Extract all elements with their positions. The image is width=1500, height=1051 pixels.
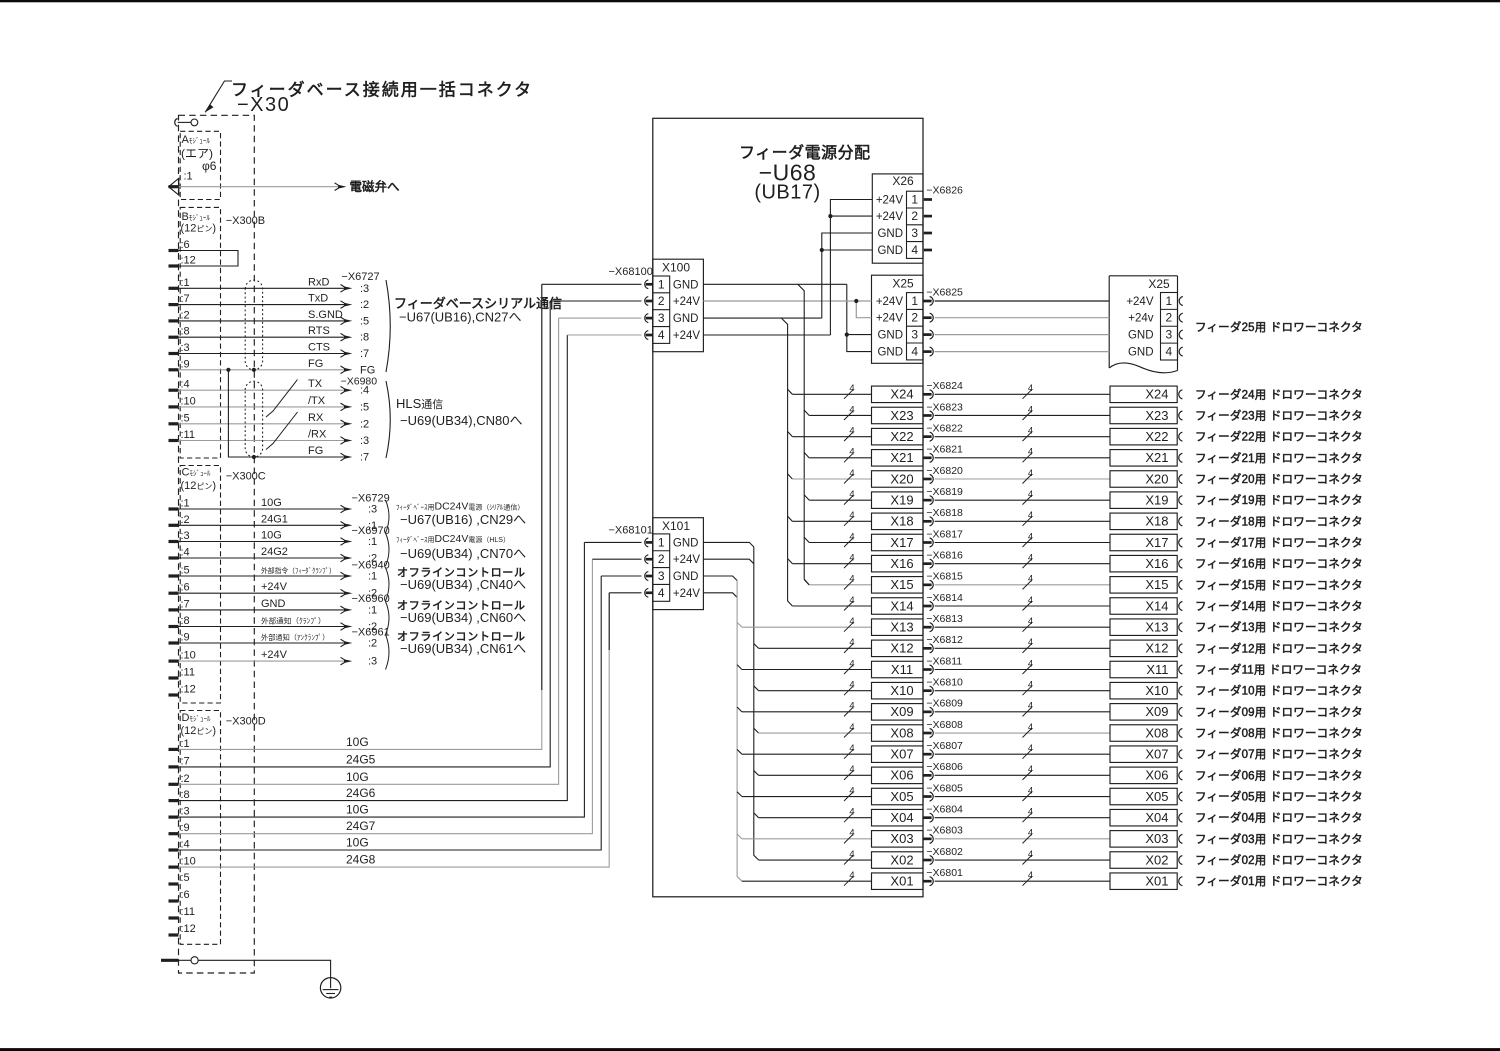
bus tap to X21 bbox=[804, 453, 809, 458]
svg-text:−X6817: −X6817 bbox=[926, 528, 963, 540]
shield capsule serial bbox=[245, 280, 262, 370]
connector X26 box bbox=[872, 174, 923, 263]
connector -X6802 plug bbox=[923, 859, 932, 862]
svg-text:10G: 10G bbox=[261, 530, 282, 542]
pin C:11 tick bbox=[169, 676, 179, 679]
svg-text:+24V: +24V bbox=[673, 296, 701, 308]
drawer connector X15 box bbox=[1110, 577, 1177, 594]
wire X16 to drawer connector bbox=[935, 563, 1110, 565]
svg-text:4: 4 bbox=[849, 764, 854, 775]
svg-text:X02: X02 bbox=[890, 852, 913, 867]
svg-text:1: 1 bbox=[1165, 294, 1172, 308]
connector -X6822 plug bbox=[923, 435, 932, 438]
bus tap to X03 bbox=[737, 834, 742, 839]
wire X100:3 GND to X26 pins 3-4 bbox=[703, 317, 821, 319]
svg-text::4: :4 bbox=[181, 379, 190, 391]
wire D:9 24G7 to distribution bbox=[179, 559, 593, 834]
connector X101 box bbox=[653, 518, 704, 610]
svg-text:2: 2 bbox=[658, 552, 665, 566]
power distribution unit U68 (UB17) box bbox=[653, 118, 923, 897]
junction dot X25 pin3 bbox=[845, 333, 849, 337]
drawer connector X13 box bbox=[1110, 619, 1177, 636]
svg-text:フィーダ08用 ドロワーコネクタ: フィーダ08用 ドロワーコネクタ bbox=[1195, 726, 1363, 740]
svg-text::3: :3 bbox=[181, 342, 190, 354]
svg-text:24G8: 24G8 bbox=[346, 853, 376, 867]
pin C:6 tick bbox=[169, 592, 179, 595]
wire X04 to drawer connector bbox=[935, 817, 1110, 819]
svg-text:4: 4 bbox=[1028, 383, 1033, 394]
bus tap to X08 bbox=[754, 728, 759, 733]
svg-text:X03: X03 bbox=[890, 831, 913, 846]
svg-text:X18: X18 bbox=[1145, 514, 1168, 529]
svg-text:3: 3 bbox=[911, 226, 918, 240]
wire D:2 10G to distribution bbox=[179, 318, 559, 784]
svg-text:+24V: +24V bbox=[673, 330, 701, 342]
svg-text:−X6819: −X6819 bbox=[926, 486, 963, 498]
svg-text::10: :10 bbox=[181, 856, 196, 868]
svg-text:CTS: CTS bbox=[308, 342, 330, 354]
svg-text::2: :2 bbox=[181, 773, 190, 785]
svg-text:+24v: +24v bbox=[1128, 313, 1154, 325]
wire X20 to drawer connector bbox=[935, 478, 1110, 480]
wire jumper B:6 to B:12 bbox=[179, 251, 239, 267]
svg-text:/RX: /RX bbox=[308, 429, 327, 441]
bus tap to X07 bbox=[737, 749, 742, 754]
svg-text:4: 4 bbox=[1028, 743, 1033, 754]
wire B:5 RX to X6980:2 bbox=[179, 423, 345, 425]
svg-text:GND: GND bbox=[877, 347, 903, 359]
pin B:4 tick bbox=[169, 389, 179, 392]
svg-text:1: 1 bbox=[911, 193, 918, 207]
pin D:9 tick bbox=[169, 832, 179, 835]
svg-text:4: 4 bbox=[1028, 849, 1033, 860]
bus tap to X10 bbox=[754, 686, 759, 691]
svg-text:4: 4 bbox=[1028, 531, 1033, 542]
wire C:3 10G bbox=[179, 541, 345, 543]
svg-text:−X6727: −X6727 bbox=[341, 271, 379, 283]
wire X6825:2 to drawer X25 bbox=[935, 317, 1110, 319]
svg-text:フィーダ01用 ドロワーコネクタ: フィーダ01用 ドロワーコネクタ bbox=[1195, 874, 1363, 888]
connector -X6817 plug bbox=[923, 541, 932, 544]
svg-text::7: :7 bbox=[181, 598, 190, 610]
pin D:10 tick bbox=[169, 865, 179, 868]
svg-text::1: :1 bbox=[368, 604, 377, 616]
shield capsule HLS bbox=[245, 381, 262, 457]
svg-text:RxD: RxD bbox=[308, 276, 329, 288]
svg-text:+24V: +24V bbox=[673, 588, 701, 600]
svg-text:4: 4 bbox=[849, 870, 854, 881]
junction dot X25 pin1 bbox=[854, 299, 858, 303]
feeder output X05 row bbox=[742, 796, 872, 798]
svg-text:24G5: 24G5 bbox=[346, 752, 376, 766]
bus tap to X16 bbox=[788, 559, 793, 564]
svg-text:X100: X100 bbox=[662, 261, 690, 275]
wire C:4 24G2 bbox=[179, 557, 345, 559]
svg-text:24G2: 24G2 bbox=[261, 546, 288, 558]
svg-text:電磁弁へ: 電磁弁へ bbox=[350, 179, 400, 194]
svg-text:−X6820: −X6820 bbox=[926, 465, 963, 477]
wire X01 to drawer connector bbox=[935, 880, 1110, 882]
svg-text:+24V: +24V bbox=[876, 296, 904, 308]
svg-text:4: 4 bbox=[1028, 616, 1033, 627]
drawer connector X08 box bbox=[1110, 725, 1177, 742]
connector X11 box on U68 bbox=[872, 661, 924, 678]
svg-text:フィーダ07用 ドロワーコネクタ: フィーダ07用 ドロワーコネクタ bbox=[1195, 747, 1363, 761]
svg-text:X25: X25 bbox=[1148, 277, 1170, 291]
connector X02 box on U68 bbox=[872, 852, 924, 869]
pin D:12 tick bbox=[169, 933, 179, 936]
svg-text::2: :2 bbox=[368, 638, 377, 650]
svg-text:X23: X23 bbox=[890, 408, 913, 423]
svg-text:+24V: +24V bbox=[876, 195, 904, 207]
wire D:10 vertical upper segment bbox=[608, 593, 610, 650]
svg-text::8: :8 bbox=[181, 326, 190, 338]
svg-text:フィーダ23用 ドロワーコネクタ: フィーダ23用 ドロワーコネクタ bbox=[1195, 408, 1363, 422]
wire X03 to drawer connector bbox=[935, 838, 1110, 840]
wire X6825:4 to drawer X25 bbox=[935, 351, 1110, 353]
svg-text:フィーダ21用 ドロワーコネクタ: フィーダ21用 ドロワーコネクタ bbox=[1195, 451, 1363, 465]
connector X13 box on U68 bbox=[872, 619, 924, 636]
wire X101:1-2 to bus vD bbox=[703, 542, 753, 547]
svg-text::12: :12 bbox=[181, 255, 196, 267]
svg-text:X14: X14 bbox=[890, 598, 913, 613]
connector -X6824 plug bbox=[923, 393, 932, 396]
svg-text:−X6813: −X6813 bbox=[926, 613, 963, 625]
svg-text::8: :8 bbox=[181, 789, 190, 801]
pin B:8 tick bbox=[169, 336, 179, 339]
svg-text:−U69(UB34) ,CN60へ: −U69(UB34) ,CN60へ bbox=[400, 610, 526, 625]
svg-text:X09: X09 bbox=[1145, 704, 1168, 719]
pin C:2 tick bbox=[169, 524, 179, 527]
svg-text::5: :5 bbox=[181, 412, 190, 424]
svg-text::7: :7 bbox=[181, 293, 190, 305]
svg-text:X24: X24 bbox=[1145, 387, 1168, 402]
bus vertical vC bbox=[737, 581, 742, 882]
wire X10 to drawer connector bbox=[935, 690, 1110, 692]
svg-text:X21: X21 bbox=[1145, 450, 1168, 465]
drawer connector X24 box bbox=[1110, 386, 1177, 403]
bus tap to X09 bbox=[737, 707, 742, 712]
svg-text::11: :11 bbox=[181, 667, 195, 679]
svg-text:−X6802: −X6802 bbox=[926, 846, 963, 858]
svg-text:X06: X06 bbox=[1145, 768, 1168, 783]
connector -X6815 plug bbox=[923, 583, 932, 586]
svg-text:−U67(UB16),CN27へ: −U67(UB16),CN27へ bbox=[399, 310, 521, 325]
svg-text:X12: X12 bbox=[1145, 641, 1168, 656]
pin C:9 tick bbox=[169, 641, 179, 644]
bottom border bar bbox=[0, 1048, 1500, 1051]
feeder output X03 row bbox=[742, 838, 872, 840]
svg-text:S.GND: S.GND bbox=[308, 309, 343, 321]
svg-text:4: 4 bbox=[1028, 468, 1033, 479]
connector X30 outer dashed outline bbox=[179, 115, 255, 973]
feeder output X17 row bbox=[809, 541, 871, 543]
svg-text:フィーダ14用 ドロワーコネクタ: フィーダ14用 ドロワーコネクタ bbox=[1195, 599, 1363, 613]
wire FG HLS from B:9 junction bbox=[228, 370, 344, 457]
svg-text:X05: X05 bbox=[890, 789, 913, 804]
junction dot X26 pin4 bbox=[820, 248, 824, 252]
wire B:4 TX to X6980:4 bbox=[179, 389, 345, 391]
svg-text::2: :2 bbox=[181, 514, 190, 526]
connector X22 box on U68 bbox=[872, 428, 924, 445]
connector -X6814 plug bbox=[923, 605, 932, 608]
svg-text:X15: X15 bbox=[1145, 577, 1168, 592]
wire C:2 24G1 bbox=[179, 524, 345, 526]
svg-text:X03: X03 bbox=[1145, 831, 1168, 846]
svg-text:4: 4 bbox=[849, 552, 854, 563]
drawer connector X22 box bbox=[1110, 428, 1177, 445]
pin C:3 tick bbox=[169, 540, 179, 543]
svg-text:X07: X07 bbox=[1145, 746, 1168, 761]
svg-text:フィーダ03用 ドロワーコネクタ: フィーダ03用 ドロワーコネクタ bbox=[1195, 832, 1363, 846]
connector X21 box on U68 bbox=[872, 450, 924, 467]
wire X24 to drawer connector bbox=[935, 393, 1110, 395]
connector -X6804 plug bbox=[923, 816, 932, 819]
bus vertical v2 from X100:3 bbox=[781, 318, 792, 606]
svg-text:24G7: 24G7 bbox=[346, 819, 376, 833]
connector -X6821 plug bbox=[923, 456, 932, 459]
svg-text:−U69(UB34),CN80へ: −U69(UB34),CN80へ bbox=[400, 413, 522, 428]
svg-text:フィーダ04用 ドロワーコネクタ: フィーダ04用 ドロワーコネクタ bbox=[1195, 811, 1363, 825]
connector -X6816 plug bbox=[923, 562, 932, 565]
brace HLS group bbox=[386, 381, 390, 458]
svg-text:フィーダ10用 ドロワーコネクタ: フィーダ10用 ドロワーコネクタ bbox=[1195, 684, 1363, 698]
svg-text:−X6822: −X6822 bbox=[926, 422, 963, 434]
svg-text:X22: X22 bbox=[890, 429, 913, 444]
brace X6970 bbox=[386, 533, 390, 566]
pin B:5 tick bbox=[169, 422, 179, 425]
wire D:8 24G6 to distribution bbox=[179, 335, 568, 801]
pin D:7 tick bbox=[169, 765, 179, 768]
svg-text:X11: X11 bbox=[891, 662, 913, 677]
svg-text:−X6961: −X6961 bbox=[352, 627, 390, 639]
leader line to X30 bbox=[205, 81, 232, 112]
junction dot FG shield HLS bbox=[252, 455, 256, 459]
svg-text:外部通知（ｸﾗﾝﾌﾟ）: 外部通知（ｸﾗﾝﾌﾟ） bbox=[261, 616, 326, 626]
coupler arc and circle at X30 top bbox=[175, 119, 178, 127]
svg-text:フィーダ12用 ドロワーコネクタ: フィーダ12用 ドロワーコネクタ bbox=[1195, 641, 1363, 655]
svg-text:4: 4 bbox=[1028, 552, 1033, 563]
svg-text:−X6803: −X6803 bbox=[926, 825, 963, 837]
feeder output X08 row bbox=[759, 732, 872, 734]
svg-text:4: 4 bbox=[849, 489, 854, 500]
svg-text:4: 4 bbox=[911, 243, 918, 257]
connector X20 box on U68 bbox=[872, 471, 924, 488]
wire X17 to drawer connector bbox=[935, 541, 1110, 543]
svg-text::8: :8 bbox=[181, 615, 190, 627]
svg-text:4: 4 bbox=[1028, 510, 1033, 521]
bus tap to X05 bbox=[737, 792, 742, 797]
svg-text:(12ピン): (12ピン) bbox=[181, 223, 217, 235]
svg-text:X06: X06 bbox=[890, 768, 913, 783]
svg-text:X11: X11 bbox=[1146, 662, 1168, 677]
svg-text::1: :1 bbox=[181, 738, 190, 750]
pin C:7 tick bbox=[169, 608, 179, 611]
svg-text:X08: X08 bbox=[1145, 725, 1168, 740]
wire X02 to drawer connector bbox=[935, 859, 1110, 861]
feeder output X18 row bbox=[792, 520, 871, 522]
junction dot X26 pin2 bbox=[828, 214, 832, 218]
pin B:3 tick bbox=[169, 352, 179, 355]
svg-text:/TX: /TX bbox=[308, 395, 326, 407]
svg-text:HLS通信: HLS通信 bbox=[396, 396, 443, 411]
connector X101 pin cells bbox=[653, 534, 670, 601]
connector -X6808 plug bbox=[923, 732, 932, 735]
pin D:11 tick bbox=[169, 916, 179, 919]
connector X18 box on U68 bbox=[872, 513, 924, 530]
svg-text:2: 2 bbox=[658, 294, 665, 308]
wire B:10 /TX to X6980:5 bbox=[179, 406, 345, 408]
connector -X6806 plug bbox=[923, 774, 932, 777]
svg-text:GND: GND bbox=[673, 571, 699, 583]
svg-text:−X6729: −X6729 bbox=[352, 493, 390, 505]
wire D:7 24G5 to distribution bbox=[179, 301, 551, 767]
wire X12 to drawer connector bbox=[935, 647, 1110, 649]
svg-text:−X30: −X30 bbox=[237, 94, 290, 116]
connector X10 box on U68 bbox=[872, 682, 924, 699]
wire X100:1 GND to X25 pins 3-4 bbox=[703, 283, 846, 285]
feeder output X02 row bbox=[759, 859, 872, 861]
svg-text:X05: X05 bbox=[1145, 789, 1168, 804]
svg-text:−X6823: −X6823 bbox=[926, 401, 963, 413]
svg-text:X22: X22 bbox=[1145, 429, 1168, 444]
svg-text:4: 4 bbox=[849, 701, 854, 712]
svg-text:X15: X15 bbox=[890, 577, 913, 592]
svg-text:24G1: 24G1 bbox=[261, 513, 288, 525]
svg-text:4: 4 bbox=[849, 658, 854, 669]
svg-text:フィーダ22用 ドロワーコネクタ: フィーダ22用 ドロワーコネクタ bbox=[1195, 430, 1363, 444]
drawer connector X11 box bbox=[1110, 661, 1177, 678]
svg-text:TX: TX bbox=[308, 378, 323, 390]
svg-text:RX: RX bbox=[308, 412, 324, 424]
svg-text:4: 4 bbox=[1028, 489, 1033, 500]
svg-text:4: 4 bbox=[849, 468, 854, 479]
drawer connector X21 box bbox=[1110, 450, 1177, 467]
connector X03 box on U68 bbox=[872, 831, 924, 848]
svg-text:フィーダ15用 ドロワーコネクタ: フィーダ15用 ドロワーコネクタ bbox=[1195, 578, 1363, 592]
drawer connector X20 box bbox=[1110, 471, 1177, 488]
svg-text:+24V: +24V bbox=[261, 581, 288, 593]
svg-text:X20: X20 bbox=[1145, 471, 1168, 486]
svg-text::6: :6 bbox=[181, 239, 190, 251]
svg-text:1: 1 bbox=[658, 535, 665, 549]
wire C:1 10G bbox=[179, 508, 345, 510]
svg-text:外部通知（ｱﾝｸﾗﾝﾌﾟ）: 外部通知（ｱﾝｸﾗﾝﾌﾟ） bbox=[261, 633, 329, 642]
connector X26 pin cells bbox=[907, 191, 924, 258]
svg-text:4: 4 bbox=[849, 679, 854, 690]
pin B:1 tick bbox=[169, 287, 179, 290]
pin C:12 tick bbox=[169, 693, 179, 696]
bus tap to X04 bbox=[754, 813, 759, 818]
svg-text:X09: X09 bbox=[890, 704, 913, 719]
connector X23 box on U68 bbox=[872, 407, 924, 424]
svg-text::3: :3 bbox=[181, 530, 190, 542]
wire X100:4 +24V to X26 pins 1-2 bbox=[703, 334, 830, 336]
svg-text:3: 3 bbox=[1165, 328, 1172, 342]
svg-text::6: :6 bbox=[181, 889, 190, 901]
bus tap to X22 bbox=[788, 432, 793, 437]
svg-text:X17: X17 bbox=[890, 535, 913, 550]
svg-text::8: :8 bbox=[360, 332, 369, 344]
svg-text:+24V: +24V bbox=[261, 649, 288, 661]
drawer connector X10 box bbox=[1110, 682, 1177, 699]
bus tap to X11 bbox=[737, 665, 742, 670]
drawer connector X09 box bbox=[1110, 704, 1177, 721]
svg-text:+24V: +24V bbox=[876, 313, 904, 325]
drawer connector X25 feeder25 box bbox=[1109, 275, 1177, 277]
feeder output X11 row bbox=[742, 669, 872, 671]
connector X24 box on U68 bbox=[872, 386, 924, 403]
svg-text:−X6816: −X6816 bbox=[926, 549, 963, 561]
brace X6961 bbox=[386, 635, 390, 670]
svg-text:TxD: TxD bbox=[308, 293, 328, 305]
svg-text:X04: X04 bbox=[1145, 810, 1168, 825]
wire X14 to drawer connector bbox=[935, 605, 1110, 607]
svg-text:FG: FG bbox=[360, 364, 375, 376]
svg-text:X10: X10 bbox=[1145, 683, 1168, 698]
wire X09 to drawer connector bbox=[935, 711, 1110, 713]
wire X21 to drawer connector bbox=[935, 457, 1110, 459]
svg-text:2: 2 bbox=[911, 311, 918, 325]
svg-text:−X6825: −X6825 bbox=[926, 287, 963, 299]
svg-text:4: 4 bbox=[849, 425, 854, 436]
svg-text:フィーダ06用 ドロワーコネクタ: フィーダ06用 ドロワーコネクタ bbox=[1195, 768, 1363, 782]
connector X08 box on U68 bbox=[872, 725, 924, 742]
svg-text:フィーダ24用 ドロワーコネクタ: フィーダ24用 ドロワーコネクタ bbox=[1195, 387, 1363, 401]
connector X19 box on U68 bbox=[872, 492, 924, 509]
connector -X6809 plug bbox=[923, 710, 932, 713]
drawer X25 pin cells bbox=[1161, 293, 1178, 361]
wire X15 to drawer connector bbox=[935, 584, 1110, 586]
svg-text:X20: X20 bbox=[890, 471, 913, 486]
brace X6729 bbox=[386, 500, 390, 533]
svg-text:−X6811: −X6811 bbox=[926, 655, 962, 667]
wire D:4 10G to distribution bbox=[179, 576, 602, 850]
drawer connector X23 box bbox=[1110, 407, 1177, 424]
pin D:6 tick bbox=[169, 899, 179, 902]
svg-text:4: 4 bbox=[849, 616, 854, 627]
wire B:7 TxD to X6727:2 bbox=[179, 304, 345, 306]
svg-text:X19: X19 bbox=[890, 492, 913, 507]
wire X06 to drawer connector bbox=[935, 774, 1110, 776]
svg-text:X21: X21 bbox=[890, 450, 913, 465]
bus tap to X23 bbox=[804, 410, 809, 415]
svg-text:−X300C: −X300C bbox=[226, 471, 266, 483]
svg-text::3: :3 bbox=[181, 806, 190, 818]
pin D:8 tick bbox=[169, 799, 179, 802]
svg-text::5: :5 bbox=[360, 401, 369, 413]
connector -X6801 plug bbox=[923, 880, 932, 883]
svg-text:GND: GND bbox=[261, 598, 286, 610]
svg-text::2: :2 bbox=[360, 299, 369, 311]
svg-text:4: 4 bbox=[1028, 425, 1033, 436]
wire B:8 RTS to X6727:8 bbox=[179, 336, 345, 338]
svg-text::2: :2 bbox=[181, 309, 190, 321]
drawer connector X17 box bbox=[1110, 534, 1177, 551]
svg-text:フィーダ02用 ドロワーコネクタ: フィーダ02用 ドロワーコネクタ bbox=[1195, 853, 1363, 867]
svg-text:GND: GND bbox=[877, 228, 903, 240]
svg-text::1: :1 bbox=[181, 277, 190, 289]
svg-text:4: 4 bbox=[849, 510, 854, 521]
svg-text:4: 4 bbox=[1028, 637, 1033, 648]
svg-text:−X6804: −X6804 bbox=[926, 803, 963, 815]
svg-text:4: 4 bbox=[1028, 404, 1033, 415]
svg-text::1: :1 bbox=[184, 170, 193, 182]
bus tap to X06 bbox=[754, 771, 759, 776]
feeder output X15 row bbox=[809, 584, 871, 586]
svg-text:3: 3 bbox=[658, 311, 665, 325]
drawer connector X01 box bbox=[1110, 873, 1177, 890]
